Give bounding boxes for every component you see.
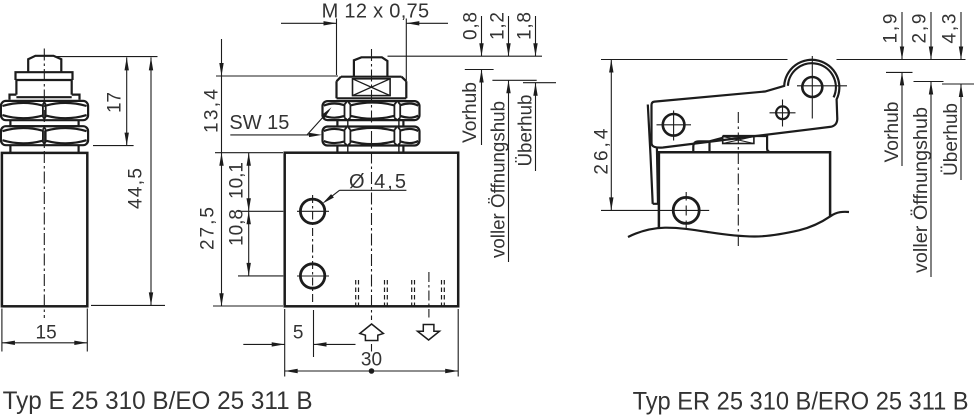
- svg-text:0,8: 0,8: [461, 12, 482, 40]
- svg-text:13,4: 13,4: [202, 89, 223, 133]
- svg-text:17: 17: [105, 92, 126, 113]
- svg-text:voller Öffnungshub: voller Öffnungshub: [911, 107, 932, 273]
- svg-text:Vorhub: Vorhub: [882, 102, 903, 163]
- svg-text:Vorhub: Vorhub: [460, 82, 481, 143]
- svg-text:Überhub: Überhub: [516, 95, 537, 167]
- svg-text:Typ ER 25 310 B/ERO 25 311 B: Typ ER 25 310 B/ERO 25 311 B: [633, 388, 969, 416]
- svg-text:M 12 x 0,75: M 12 x 0,75: [322, 1, 430, 23]
- svg-text:1,9: 1,9: [881, 14, 902, 44]
- svg-text:27,5: 27,5: [198, 207, 219, 250]
- svg-text:15: 15: [36, 323, 57, 344]
- svg-text:30: 30: [361, 350, 382, 371]
- svg-text:44,5: 44,5: [126, 168, 147, 209]
- svg-text:1,8: 1,8: [515, 12, 536, 40]
- svg-text:5: 5: [293, 323, 304, 344]
- svg-text:1,2: 1,2: [488, 12, 509, 40]
- svg-text:10,8: 10,8: [227, 209, 248, 246]
- svg-text:10,1: 10,1: [227, 162, 248, 199]
- svg-text:26,4: 26,4: [591, 128, 612, 174]
- svg-text:4,3: 4,3: [940, 14, 961, 44]
- svg-text:voller Öffnungshub: voller Öffnungshub: [489, 101, 510, 258]
- svg-text:Überhub: Überhub: [941, 103, 962, 176]
- svg-text:Typ E 25 310 B/EO 25 311 B: Typ E 25 310 B/EO 25 311 B: [3, 387, 313, 415]
- svg-text:2,9: 2,9: [910, 14, 931, 44]
- svg-text:SW 15: SW 15: [229, 112, 289, 134]
- svg-text:Ø 4,5: Ø 4,5: [349, 171, 406, 193]
